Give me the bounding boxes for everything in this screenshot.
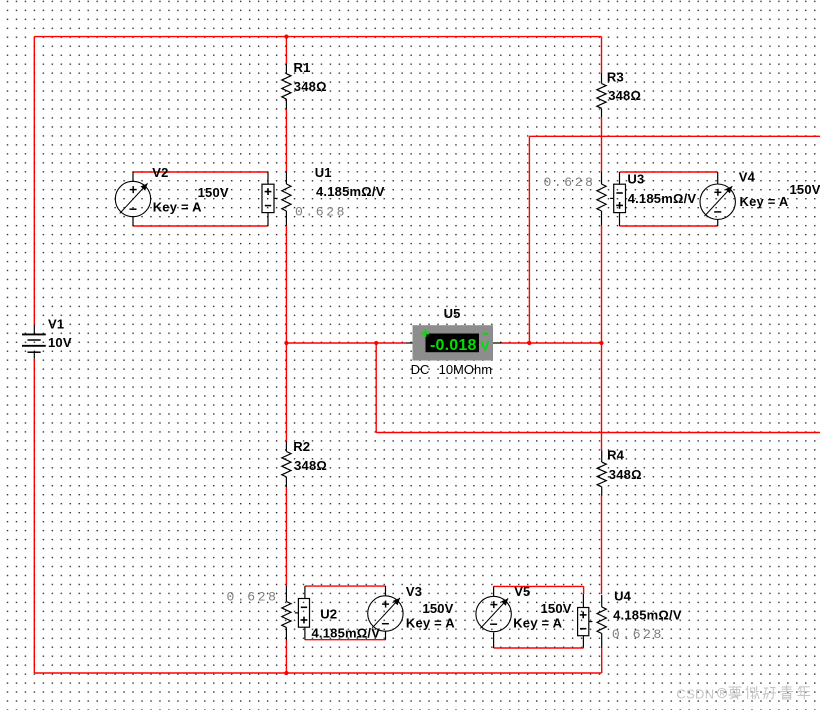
wire top-right to edge [529,135,820,137]
svg-text:-0.018: -0.018 [430,337,477,354]
svg-text:0.628: 0.628 [295,205,347,220]
svg-text:V2: V2 [152,165,168,180]
wire mid col seg4 [285,487,287,586]
svg-text:U1: U1 [315,165,332,180]
svg-text:348Ω: 348Ω [608,88,641,103]
svg-text:V3: V3 [406,584,422,599]
wire U2-V3 loop bottom [305,639,386,641]
svg-text:Key = A: Key = A [740,194,789,209]
node branch junction [374,341,378,345]
svg-text:V5: V5 [514,584,530,599]
svg-text:10V: 10V [48,335,72,350]
svg-text:348Ω: 348Ω [609,467,642,482]
wire inner right vertical [528,136,530,343]
svg-text:150V: 150V [198,185,229,200]
node top junction [284,35,288,39]
svg-text:4.185mΩ/V: 4.185mΩ/V [312,626,381,641]
battery V1 [22,317,72,359]
svg-text:Key = A: Key = A [406,616,455,631]
wire bottom horizontal [34,672,601,674]
svg-text:R4: R4 [607,447,625,462]
svg-text:DC: DC [411,362,430,377]
wire V5-U4 loop top [494,585,584,587]
resistor R2 [282,439,327,487]
svg-text:0.628: 0.628 [544,175,596,190]
svg-text:Key = A: Key = A [513,616,562,631]
wire mid col seg1 [285,37,287,64]
svg-text:Key = A: Key = A [153,200,202,215]
node mid-left junction [284,341,288,345]
wire top horizontal [34,36,601,38]
controlled source U1 [262,165,385,226]
source V4 [700,170,820,227]
resistor R1 [282,60,327,109]
controlled source U4 [578,588,682,648]
resistor R4 [597,447,642,496]
svg-text:4.185mΩ/V: 4.185mΩ/V [316,184,385,199]
multimeter U5 [406,306,502,377]
node bottom junction [284,671,288,675]
wire branch down [375,343,377,433]
svg-text:U2: U2 [320,606,337,621]
svg-text:348Ω: 348Ω [294,79,327,94]
wire branch to right edge [376,432,820,434]
svg-text:150V: 150V [422,601,453,616]
node right junction [599,341,603,345]
resistor R3 [597,70,641,118]
svg-text:V1: V1 [48,317,64,332]
wire left vertical lower [33,359,35,673]
wire right col seg2 [601,117,603,171]
svg-text:0.628: 0.628 [612,627,664,642]
wire bottom-right riser [601,648,603,673]
svg-text:150V: 150V [541,601,572,616]
node inner-right junction [527,341,531,345]
controlled source U3 [544,171,697,226]
svg-text:R2: R2 [293,439,310,454]
wire mid col seg3 [285,226,287,442]
wire right col seg3 [601,225,603,450]
controlled source U2 [227,586,381,641]
source V5 [476,584,572,648]
wire meter left [286,342,405,344]
wire V5-U4 loop top riser [583,586,585,594]
svg-text:V: V [480,338,490,354]
svg-text:150V: 150V [790,182,820,197]
wire meter right [502,342,602,344]
svg-text:10MOhm: 10MOhm [439,362,492,377]
svg-text:R1: R1 [294,60,311,75]
wire right col seg1 [601,37,603,73]
wire mid col seg5 [285,640,287,673]
svg-text:U4: U4 [614,588,632,603]
wire left vertical upper [33,37,35,325]
wire U3-V4 loop bottom [620,225,718,227]
svg-text:0.628: 0.628 [227,589,279,604]
wire U3-V4 loop top [620,171,718,173]
wire V2 loop top [133,171,268,173]
wire U2-V3 loop top [305,585,386,587]
svg-text:4.185mΩ/V: 4.185mΩ/V [628,191,697,206]
svg-text:U3: U3 [627,172,644,187]
source V3 [368,584,456,640]
wire V5-U4 loop bottom [494,647,584,649]
wire V2 loop bottom [133,225,268,227]
wire mid col seg2 [285,109,287,171]
wire right col seg4 [601,496,603,594]
svg-text:U5: U5 [444,306,461,321]
svg-text:CSDN: CSDN [676,686,714,701]
source V2 [115,165,229,226]
svg-text:V4: V4 [739,170,756,185]
svg-text:R3: R3 [607,70,624,85]
svg-text:4.185mΩ/V: 4.185mΩ/V [613,608,682,623]
svg-text:348Ω: 348Ω [294,458,327,473]
